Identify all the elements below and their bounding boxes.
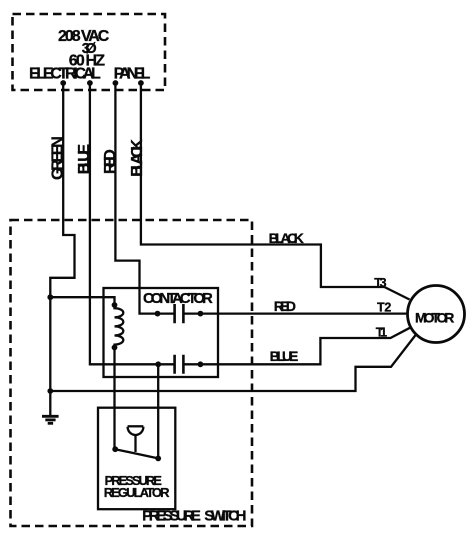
svg-text:BLACK: BLACK [269,230,308,246]
svg-text:REGULATOR: REGULATOR [104,485,173,500]
svg-text:T2: T2 [377,301,395,315]
svg-text:RED: RED [102,146,119,174]
svg-text:RED: RED [274,298,300,314]
svg-text:MOTOR: MOTOR [415,309,458,325]
svg-text:PRESSURE SWITCH: PRESSURE SWITCH [142,508,250,525]
svg-text:ELECTRICAL: ELECTRICAL [29,66,104,83]
svg-text:BLUE: BLUE [270,348,302,364]
svg-text:GREEN: GREEN [50,133,67,180]
svg-text:BLUE: BLUE [76,141,93,175]
svg-text:PANEL: PANEL [114,66,154,83]
svg-text:T3: T3 [374,276,390,290]
svg-text:T1: T1 [376,325,391,339]
svg-text:CONTACTOR: CONTACTOR [143,290,216,307]
svg-text:BLACK: BLACK [129,136,146,177]
